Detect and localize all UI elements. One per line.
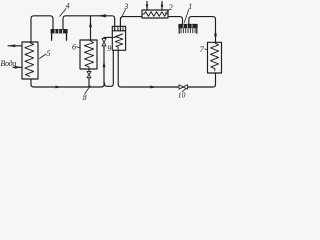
wire: valve 9 to coil inlet xyxy=(104,37,112,38)
wire: compressor 4 discharge to vessel 3 top xyxy=(63,16,115,31)
vessel 3 shell drain U-turn xyxy=(105,50,114,86)
wire: condenser 2 to compressor 1 xyxy=(168,17,183,25)
vessel 3 top band xyxy=(112,30,125,32)
evaporator 7 shell xyxy=(208,42,222,73)
svg-text:10: 10 xyxy=(178,90,186,99)
condenser 2 coil xyxy=(142,12,168,17)
label 4 leader xyxy=(60,9,66,16)
svg-text:1: 1 xyxy=(188,2,192,11)
svg-text:7: 7 xyxy=(200,45,205,54)
valve 9 xyxy=(102,39,106,43)
wire: compressor 1 suction from evaporator 7 xyxy=(189,17,216,43)
compressor 4 piston band xyxy=(51,29,67,33)
valve 8 xyxy=(87,71,91,74)
compressor 1 comb hatch xyxy=(181,29,195,33)
compressor 1 piston band xyxy=(179,24,197,28)
bottom bus east: coil pipe, valve 10, evaporator 7 feed xyxy=(118,50,215,87)
condenser 5 (water-cooled) shell xyxy=(22,42,38,79)
svg-text:3: 3 xyxy=(123,2,128,11)
heat exchanger 6 shell xyxy=(80,40,97,69)
intermediate vessel 3 shell xyxy=(112,26,125,50)
compressor 1 cylinder walls xyxy=(178,28,180,33)
label 6 leader xyxy=(77,47,81,48)
label 1 leader xyxy=(184,10,189,23)
svg-text:2: 2 xyxy=(169,3,173,12)
water outlet arrow xyxy=(8,45,22,47)
svg-text:6: 6 xyxy=(72,43,76,52)
svg-text:4: 4 xyxy=(66,2,70,11)
evaporator 7 coil xyxy=(211,43,219,71)
label 2 leader xyxy=(165,10,169,13)
condenser 5 coil xyxy=(25,43,34,77)
svg-text:8: 8 xyxy=(83,93,87,101)
label 8 leader xyxy=(85,86,90,94)
valve 8 stem xyxy=(88,69,90,71)
cooling water outlet arrow xyxy=(161,2,163,11)
flow arrow up on riser xyxy=(89,20,92,27)
flow arrow west on top line xyxy=(97,14,106,17)
svg-text:5: 5 xyxy=(47,49,51,58)
bottom bus west + up-turn to valve 9 xyxy=(31,46,104,87)
throttle valve 10 xyxy=(179,85,183,90)
flow arrow up suction xyxy=(214,29,217,36)
wire: vessel 3 top to condenser 2 xyxy=(120,17,142,31)
wire: condenser 5 top to compressor 4 suction xyxy=(31,16,53,42)
vessel 3 coil xyxy=(112,34,123,50)
label 3 leader xyxy=(120,10,125,20)
heat exchanger 6 coil xyxy=(84,41,93,70)
flow arrow east xyxy=(150,86,157,89)
compressor 4 cylinder walls xyxy=(51,33,53,40)
svg-text:9: 9 xyxy=(107,44,111,53)
cooling water inlet arrow xyxy=(146,2,148,11)
flow arrow up on valve 9 line xyxy=(103,60,106,67)
label 7 leader xyxy=(205,48,208,51)
flow arrow east on west bus xyxy=(55,86,62,89)
wire: HX6 riser xyxy=(90,16,92,40)
water inlet arrow xyxy=(13,66,22,68)
svg-text:Вода: Вода xyxy=(0,59,16,68)
condenser 2 shell xyxy=(142,10,168,18)
label 5 xyxy=(40,54,47,59)
label 10 leader xyxy=(182,89,185,92)
